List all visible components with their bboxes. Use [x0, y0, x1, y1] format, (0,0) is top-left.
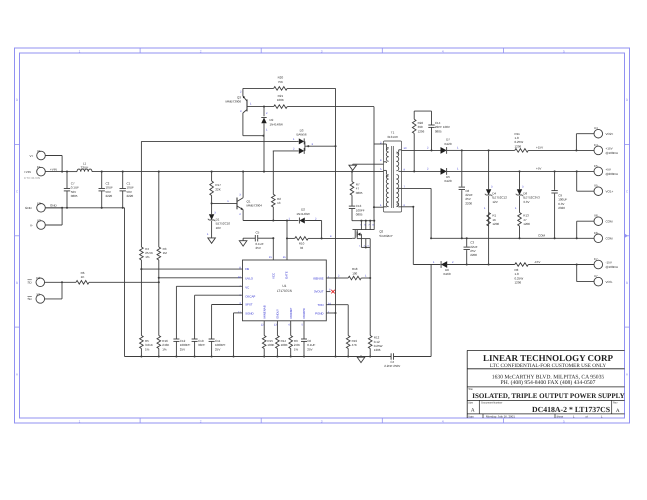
svg-text:SFST: SFST: [245, 303, 253, 307]
border grid tick marks: [15, 48, 630, 423]
capacitor C3: [464, 238, 478, 265]
diode D6: [441, 261, 515, 276]
op-amp U1 LT1737CS box: [243, 260, 327, 321]
capacitor C4: [384, 353, 431, 368]
wire R21 to T1 pin 2: [373, 107, 384, 221]
resistor R18: [336, 267, 371, 280]
transformer T1: [384, 131, 402, 212]
wire VC net: [176, 286, 242, 339]
svg-text:47K: 47K: [352, 343, 357, 347]
title block size value: [471, 407, 475, 413]
wire ISENSE pin: [326, 277, 335, 279]
ground symbol D1: [208, 238, 216, 243]
wire VCC pin: [272, 238, 274, 260]
resistor R17: [210, 172, 221, 204]
resistor R1: [487, 213, 500, 227]
svg-text:1N4148W: 1N4148W: [270, 122, 284, 126]
wire Q2 drain bus: [352, 220, 375, 227]
svg-text:PGND: PGND: [315, 312, 323, 316]
wire X1 to +VIN rail: [61, 156, 63, 173]
connector E2: [25, 201, 62, 212]
svg-text:VO3-: VO3-: [606, 280, 613, 284]
capacitor C5: [243, 231, 274, 250]
label -15V net: [534, 260, 540, 264]
zener diode D8: [515, 171, 540, 212]
svg-text:X5: X5: [594, 184, 598, 188]
svg-text:3: 3: [321, 49, 323, 53]
pin numbers T1 right: [404, 147, 407, 207]
transistor Q3: [225, 88, 252, 135]
svg-text:MMBT3906: MMBT3906: [225, 100, 241, 104]
svg-text:RCMPC: RCMPC: [302, 308, 306, 319]
resistor R11: [515, 132, 595, 152]
zener diode D1: [207, 203, 230, 238]
svg-text:VO1+: VO1+: [606, 189, 614, 193]
svg-text:25V: 25V: [307, 347, 312, 351]
svg-text:PH. (408) 954-8400 FAX (408): PH. (408) 954-8400 FAX (408) 434-0507: [501, 380, 596, 386]
resistor R16: [157, 282, 169, 357]
svg-text:SGND: SGND: [245, 311, 253, 315]
title block title label: [468, 388, 473, 391]
resistor R21: [247, 94, 374, 109]
svg-text:5: 5: [563, 49, 565, 53]
wire Q1 emitter to VCC node: [243, 210, 287, 222]
wire +15V rail: [461, 149, 515, 151]
svg-text:DC418A-2 * LT1737CS: DC418A-2 * LT1737CS: [532, 405, 610, 414]
svg-text:ENDLY: ENDLY: [276, 309, 280, 318]
label +15V net: [536, 146, 543, 150]
svg-text:COM: COM: [606, 237, 614, 241]
svg-text:25V: 25V: [180, 347, 185, 351]
resistor R14: [276, 321, 288, 358]
title block date row: [468, 414, 603, 418]
svg-text:LINEAR TECHNOLOGY CORP: LINEAR TECHNOLOGY CORP: [483, 353, 614, 363]
svg-text:Sheet: Sheet: [557, 415, 564, 418]
connector X5: [577, 171, 614, 195]
wire SGND net: [232, 313, 242, 358]
svg-text:Document Number: Document Number: [481, 401, 502, 404]
dual diode D3 BAW56: [273, 128, 314, 154]
svg-text:E5: E5: [594, 164, 598, 168]
svg-text:@100mA: @100mA: [606, 151, 619, 155]
inductor L1: [77, 162, 92, 172]
resistor R6: [76, 271, 89, 284]
svg-text:X3: X3: [36, 292, 40, 296]
border grid row letters: [16, 98, 629, 376]
connector E6: [594, 231, 613, 243]
svg-text:1%: 1%: [145, 255, 150, 259]
svg-text:1206: 1206: [374, 348, 381, 352]
svg-text:100K: 100K: [267, 343, 274, 347]
svg-text:2: 2: [200, 419, 202, 423]
resistor R10: [286, 221, 323, 250]
connector X1: [30, 149, 63, 160]
title block confidential: [490, 363, 606, 369]
wire +5V junctions: [518, 170, 577, 172]
svg-text:A: A: [616, 408, 620, 414]
svg-text:Monday, July 16, 2001: Monday, July 16, 2001: [486, 414, 515, 418]
svg-text:COM: COM: [538, 234, 546, 238]
resistor R15: [262, 321, 274, 358]
connector E3: [28, 276, 77, 287]
label COM net: [538, 234, 546, 238]
svg-text:V+: V+: [30, 154, 34, 158]
svg-text:FB: FB: [245, 267, 249, 271]
svg-text:B: B: [16, 281, 18, 285]
resistor R5: [140, 269, 153, 357]
wire GATE pin: [286, 238, 288, 260]
title block frame: [467, 350, 624, 418]
resistor R12: [368, 336, 382, 358]
svg-text:1%: 1%: [162, 347, 167, 351]
svg-text:2320: 2320: [558, 206, 565, 210]
title block company name: [483, 353, 614, 363]
wire X2 to GND rail: [61, 207, 63, 225]
capacitor C9: [551, 171, 567, 239]
svg-text:B160: B160: [443, 272, 450, 276]
connector X4: [576, 126, 613, 150]
svg-text:1K: 1K: [81, 275, 85, 279]
svg-text:1206: 1206: [515, 281, 522, 285]
svg-text:MMBT3904: MMBT3904: [247, 204, 263, 208]
svg-text:X7: X7: [594, 274, 598, 278]
svg-text:100K: 100K: [281, 343, 288, 347]
no-connect marker pin 9: [326, 290, 335, 294]
resistor R13: [518, 213, 531, 240]
svg-text:1N4148W: 1N4148W: [296, 212, 310, 216]
svg-text:X1: X1: [37, 149, 41, 153]
svg-text:+15V: +15V: [536, 146, 543, 150]
title block size label: [468, 401, 618, 404]
wire COM rail: [430, 237, 594, 239]
wire Q2 source pins: [359, 239, 370, 249]
capacitor C13: [349, 204, 365, 221]
svg-text:E4: E4: [594, 143, 598, 147]
svg-text:0805: 0805: [356, 191, 363, 195]
svg-text:2200: 2200: [465, 201, 472, 205]
title block address: [492, 375, 605, 381]
svg-text:E3: E3: [36, 276, 40, 280]
resistor R4: [140, 247, 153, 269]
transistor Q1: [237, 193, 262, 216]
svg-text:1: 1: [79, 419, 81, 423]
wire R17 to Q1 base: [211, 200, 237, 204]
resistor R7: [350, 172, 363, 207]
wire Q3 collector: [243, 135, 265, 137]
svg-text:33PF: 33PF: [198, 343, 205, 347]
resistor R22: [412, 111, 424, 172]
svg-text:+5V: +5V: [536, 167, 541, 171]
wire T1 pin10 to D7: [402, 147, 441, 152]
connector X7: [577, 265, 613, 286]
connector X3: [28, 292, 63, 303]
svg-text:31314R: 31314R: [387, 135, 398, 139]
svg-text:1%: 1%: [294, 347, 299, 351]
svg-text:1%: 1%: [145, 347, 150, 351]
svg-text:E2: E2: [37, 201, 41, 205]
wire T1 pin6 down: [402, 206, 441, 265]
svg-text:C5: C5: [256, 231, 260, 235]
ground symbol T1 pin 4: [349, 165, 357, 170]
capacitor C8: [459, 150, 473, 239]
ground symbol C5: [239, 241, 247, 246]
diode D7: [441, 138, 462, 154]
svg-text:1M: 1M: [163, 251, 168, 255]
wire feedback sense line: [141, 141, 297, 247]
svg-text:3.3V: 3.3V: [523, 200, 529, 204]
connector X2: [30, 219, 62, 230]
svg-text:TON: TON: [317, 303, 323, 307]
svg-text:12V: 12V: [492, 200, 497, 204]
diode D5: [441, 168, 595, 183]
svg-text:+VIN: +VIN: [24, 170, 31, 174]
title block title: [472, 392, 624, 400]
svg-text:X4: X4: [594, 126, 598, 130]
wire C4 to COM: [430, 265, 432, 357]
label +5V net: [536, 167, 541, 171]
svg-text:1206: 1206: [492, 222, 499, 226]
capacitor C10: [192, 339, 206, 358]
svg-text:E1: E1: [37, 165, 41, 169]
label input voltage range: [24, 176, 40, 180]
diode D9: [261, 107, 283, 172]
svg-text:2200: 2200: [470, 253, 477, 257]
svg-text:VO2+: VO2+: [606, 132, 614, 136]
svg-text:MINENAB: MINENAB: [262, 305, 266, 318]
connector E1: [24, 165, 67, 176]
svg-text:2220: 2220: [127, 194, 134, 198]
wire T1 pin 4 to ground: [353, 164, 384, 165]
svg-text:X2: X2: [37, 219, 41, 223]
diode D2: [286, 208, 322, 224]
pin numbers U1: [238, 256, 331, 327]
svg-text:33UH: 33UH: [81, 165, 89, 169]
svg-text:100K: 100K: [277, 98, 284, 102]
svg-text:1206: 1206: [523, 222, 530, 226]
wire X3 to E3 line: [61, 281, 63, 299]
wire GND rail down to ground bus: [124, 208, 126, 357]
wire Q2 source down: [369, 247, 371, 335]
svg-text:@200mA: @200mA: [606, 172, 619, 176]
svg-text:A: A: [471, 407, 475, 413]
svg-text:2220: 2220: [106, 194, 113, 198]
svg-text:4: 4: [442, 419, 444, 423]
svg-text:2: 2: [200, 49, 202, 53]
svg-text:Size: Size: [468, 401, 473, 404]
pin numbers T1 left: [380, 141, 382, 207]
svg-text:LT1737CS: LT1737CS: [277, 289, 292, 293]
svg-text:UVLO: UVLO: [245, 276, 254, 280]
svg-text:ISOLATED, TRIPLE OUTPUT POWER: ISOLATED, TRIPLE OUTPUT POWER SUPPLY: [472, 392, 624, 400]
svg-text:COM: COM: [606, 219, 614, 223]
zener diode D4: [484, 150, 507, 264]
resistor R9: [289, 321, 300, 358]
border frame inner: [20, 53, 625, 418]
svg-text:5: 5: [563, 419, 565, 423]
svg-text:0805: 0805: [71, 194, 78, 198]
svg-text:4: 4: [442, 49, 444, 53]
svg-text:BAW56: BAW56: [296, 133, 306, 137]
capacitor C11: [209, 339, 226, 358]
svg-text:100: 100: [352, 271, 357, 275]
border grid column numbers: [79, 49, 565, 423]
svg-text:Rev: Rev: [613, 401, 618, 404]
svg-text:0805: 0805: [435, 129, 442, 133]
svg-text:1206: 1206: [515, 144, 522, 148]
svg-text:10V: 10V: [216, 226, 221, 230]
svg-text:8 TO 36 VIN: 8 TO 36 VIN: [24, 176, 40, 180]
wire T1 pin9 to D5: [402, 168, 441, 172]
wire T1 pin 1: [374, 206, 384, 208]
svg-text:25V: 25V: [215, 347, 220, 351]
wire Q1 collector to rail: [242, 172, 244, 198]
resistor R20: [243, 76, 336, 91]
svg-text:LTC CONFIDENTIAL-FOR CUSTOMER: LTC CONFIDENTIAL-FOR CUSTOMER USE ONLY: [490, 363, 606, 369]
svg-text:2.2NF 250V: 2.2NF 250V: [384, 364, 400, 368]
connector E7: [594, 257, 618, 269]
border revision marker: [624, 233, 628, 238]
resistor R8: [515, 263, 595, 285]
svg-text:3: 3: [321, 419, 323, 423]
connector E4: [594, 143, 618, 155]
wire T1 pin7 to COM: [402, 188, 432, 238]
wire UVLO net: [158, 277, 243, 279]
connector E5: [594, 164, 618, 176]
wire R20 to ISENSE node: [334, 88, 336, 357]
svg-text:3VOUT: 3VOUT: [314, 290, 324, 294]
svg-text:1206: 1206: [418, 129, 425, 133]
capacitor C12: [173, 339, 190, 358]
svg-text:of: of: [586, 415, 588, 418]
svg-text:GND: GND: [25, 206, 33, 210]
svg-text:1: 1: [79, 49, 81, 53]
svg-text:@100mA: @100mA: [606, 265, 619, 269]
wire drain pins: [353, 221, 375, 230]
wire BAW56 common cathode: [308, 145, 336, 147]
svg-text:22K: 22K: [215, 187, 220, 191]
svg-text:V-: V-: [30, 223, 33, 227]
wire shutdown net: [89, 281, 160, 283]
pin labels U1 top bottom: [262, 271, 305, 318]
wire +VIN rail: [66, 171, 384, 173]
title block rev value: [616, 408, 620, 414]
svg-text:Date:: Date:: [468, 415, 474, 418]
capacitor C7: [64, 172, 79, 208]
svg-text:B: B: [626, 281, 628, 285]
svg-text:E6: E6: [594, 231, 598, 235]
capacitor C1: [120, 172, 135, 208]
svg-text:Si4462DY: Si4462DY: [379, 234, 393, 238]
resistor R2: [272, 151, 282, 221]
wire FB net: [140, 268, 242, 270]
resistor R19: [326, 305, 357, 358]
resistor R3: [157, 172, 167, 283]
svg-text:13: 13: [277, 201, 281, 205]
svg-text:GATE: GATE: [284, 271, 288, 279]
svg-text:E7: E7: [594, 257, 598, 261]
ground symbol bus: [357, 357, 365, 362]
svg-text:25V: 25V: [256, 246, 261, 250]
capacitor C2: [99, 172, 114, 208]
border frame outer: [15, 48, 630, 423]
connector X6: [577, 214, 613, 239]
svg-text:-15V: -15V: [534, 260, 540, 264]
transistor Q2 Si4462DY: [352, 230, 393, 239]
svg-text:ROCMP: ROCMP: [289, 308, 293, 319]
svg-text:ISENSE: ISENSE: [313, 276, 324, 280]
svg-text:U1: U1: [282, 284, 286, 288]
svg-text:33: 33: [300, 246, 304, 250]
title block phone: [501, 380, 596, 386]
svg-text:+VIN: +VIN: [50, 167, 57, 171]
title block document number: [532, 405, 610, 414]
svg-text:GND: GND: [50, 204, 58, 208]
svg-text:OSCAP: OSCAP: [245, 294, 255, 298]
wire gate to Q2: [322, 235, 353, 239]
svg-text:0805: 0805: [356, 213, 363, 217]
wire SFST net: [212, 305, 243, 340]
svg-text:X6: X6: [594, 214, 598, 218]
svg-text:VCC: VCC: [272, 273, 276, 279]
svg-text:B120: B120: [444, 179, 451, 183]
wire PGND pin: [326, 312, 335, 314]
svg-text:VC: VC: [245, 286, 249, 290]
capacitor C6: [301, 321, 316, 358]
pin labels U1 sides: [245, 267, 324, 316]
svg-text:C4: C4: [390, 360, 394, 364]
wire primary ground bus: [125, 355, 392, 357]
svg-text:B120: B120: [444, 142, 451, 146]
svg-text:Title: Title: [468, 388, 473, 391]
svg-text:75K: 75K: [278, 80, 283, 84]
capacitor C14: [414, 111, 450, 150]
wire OSCAP net: [195, 295, 243, 339]
wire GND rail: [45, 207, 125, 209]
